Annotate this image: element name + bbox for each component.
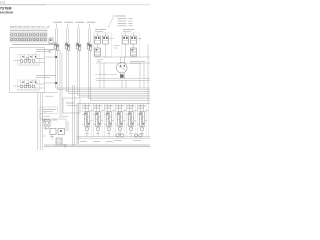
relay group left: [94, 33, 114, 58]
svg-text:ABBREVIATION AND MATCHING No.: ABBREVIATION AND MATCHING No. LIST: [10, 25, 51, 28]
right bus drops: [100, 80, 144, 88]
group wires left: [98, 44, 106, 57]
inter-group marks: [114, 46, 120, 49]
relay group left label: [95, 30, 106, 32]
right vertical wires: [95, 44, 148, 104]
relay R3: [105, 104, 116, 137]
relay R5: [127, 104, 138, 137]
svg-text:CUIT DIAGRAM: CUIT DIAGRAM: [0, 10, 13, 14]
relay R2 label: [93, 106, 104, 134]
relay R1: [83, 104, 94, 137]
bottom lamp cluster 1: [114, 134, 124, 141]
relay R1 label: [82, 106, 93, 134]
inline connector CN3: [76, 43, 81, 50]
relay R3 label: [104, 106, 115, 134]
harness code label: [45, 95, 53, 97]
air conditioner unit box: [10, 48, 58, 93]
junction box: [49, 38, 54, 52]
relay R2: [94, 104, 105, 137]
harness side labels: [43, 112, 45, 136]
blower circuit 1 label: [34, 49, 57, 56]
wire harness labels: [54, 22, 96, 28]
blower circuit 2 label: [34, 75, 57, 82]
relay R5 label: [126, 106, 137, 134]
relay row rail: [80, 110, 148, 112]
right bus upper: [95, 57, 150, 63]
compressor motor: [117, 63, 128, 74]
left harness drop: [38, 93, 43, 151]
relay R4 label: [115, 106, 126, 134]
a/c switch label box: [40, 107, 58, 114]
relay R4: [116, 104, 127, 137]
thermostat: [44, 120, 57, 127]
group wires right: [126, 44, 134, 57]
a/c switch wiring: [40, 114, 68, 129]
bottom lamp cluster 2: [133, 134, 142, 141]
wire pair 3: [78, 29, 151, 98]
wire pair 4: [89, 29, 151, 101]
note box: [63, 98, 80, 113]
relay R6: [138, 104, 149, 137]
bottom labels: [80, 141, 113, 143]
switch cluster: [46, 119, 68, 147]
bus tick labels: [97, 60, 103, 62]
header rule: [0, 4, 150, 6]
unit caption: [12, 44, 57, 46]
blower circuit 2: [13, 80, 45, 91]
blower circuit 1: [13, 55, 45, 66]
group connector left: [95, 48, 101, 56]
group connector right: [131, 48, 137, 56]
bottom rail double: [44, 145, 150, 147]
svg-text:5-22: 5-22: [0, 1, 6, 5]
wire pair 2: [67, 29, 151, 94]
relay group right label: [123, 30, 134, 32]
inline connector CN2: [65, 43, 70, 50]
compressor label: [130, 61, 145, 63]
unit bus wires: [45, 50, 63, 118]
right bus lower: [96, 74, 150, 80]
relay bank lower rails: [77, 137, 150, 139]
relay group right: [122, 33, 142, 58]
wire pair 1: [56, 29, 151, 90]
connector table: [10, 29, 47, 42]
inline connector CN1: [54, 43, 59, 50]
harness pair center: [73, 85, 75, 146]
relay R6 label: [137, 106, 148, 134]
inline connector CN4: [87, 43, 92, 50]
relay bank top rail: [77, 104, 150, 145]
wire color legend: [108, 15, 133, 29]
